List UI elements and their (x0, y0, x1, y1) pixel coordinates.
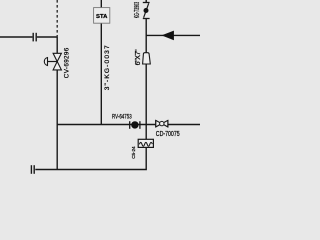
silencer / flex element box (138, 139, 153, 147)
svg-text:6"X7": 6"X7" (135, 49, 142, 66)
control valve CV-69296 actuator stem (48, 61, 58, 63)
wire vertical pipe D (100, 0, 102, 125)
svg-text:3"-KG-0037: 3"-KG-0037 (104, 44, 111, 90)
wire horizontal pipe C (57, 124, 200, 126)
valve KG-73963 bottom flange tick (143, 18, 150, 20)
wire pipe E lower segment to corner (35, 147, 146, 169)
svg-text:STA: STA (96, 14, 108, 20)
gate valve CD-70075 flange ticks (156, 120, 168, 127)
wire header pipe right segment (37, 36, 57, 38)
relief valve RV-64753 flange ticks (130, 121, 140, 129)
svg-text:CV-69296: CV-69296 (63, 47, 70, 78)
valve KG-73963 ball (144, 8, 149, 13)
wire vertical pipe B (56, 36, 58, 169)
junction box STA (94, 8, 110, 24)
svg-text:C5-24: C5-24 (131, 146, 136, 159)
valve KG-73963 top flange tick (143, 2, 150, 4)
reducer 6"X7" (143, 53, 151, 64)
valve KG-73963 diagonal (144, 3, 149, 17)
svg-text:KG-73963: KG-73963 (134, 2, 142, 18)
relief valve RV-64753 body (filled) (131, 121, 138, 128)
flange break FL1 (double tick) (33, 33, 36, 42)
gate valve CD-70075 body (156, 120, 168, 127)
wire header pipe left segment (0, 36, 32, 38)
control valve CV-69296 actuator diaphragm (44, 58, 47, 66)
wire vertical pipe E (145, 0, 147, 139)
svg-text:RV-64753: RV-64753 (112, 114, 132, 121)
svg-text:CD-70075: CD-70075 (156, 130, 180, 138)
control valve CV-69296 body (53, 53, 61, 70)
gate valve CD-70075 center ball (160, 121, 164, 125)
wire instrument signal (dashed) (56, 0, 58, 36)
wire branch to right with flow arrow (146, 34, 200, 36)
silencer wave (139, 142, 152, 146)
flange break FL2 (double tick, line end cap) (31, 165, 34, 174)
flow arrow (filled, pointing left) (162, 31, 174, 41)
